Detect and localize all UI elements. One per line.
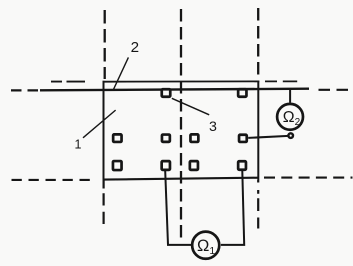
- bus right dashed segment: [319, 89, 350, 91]
- pad B4 (bottom row): [238, 161, 246, 170]
- svg-text:3: 3: [209, 119, 217, 135]
- pad M3 (middle row): [190, 134, 198, 142]
- pad B1 (bottom row): [113, 161, 122, 170]
- leader line for label 1: [83, 110, 116, 138]
- pad B2 (bottom row): [162, 161, 170, 170]
- grid line V1 lower dashed segment: [102, 180, 104, 224]
- wire from pad B4 to ohmmeter O1 right terminal: [221, 171, 244, 245]
- leader line for label 2: [113, 57, 128, 89]
- board right edge: [257, 81, 259, 180]
- svg-text:2: 2: [131, 39, 139, 56]
- pad T1 (top row, bus): [162, 89, 171, 97]
- grid line V3 lower dashed segment: [257, 180, 259, 229]
- wire from pad M4 to ohmmeter O2 bottom terminal: [248, 136, 288, 138]
- wire from bus to ohmmeter O2 top terminal: [289, 90, 291, 103]
- grid line H1 right dashed segment: [265, 80, 297, 82]
- ohmmeter O1 body: [192, 232, 219, 259]
- terminal dot at ohmmeter O2 bottom: [288, 133, 293, 138]
- leader line for label 3: [172, 98, 209, 115]
- svg-text:1: 1: [75, 138, 82, 152]
- grid line V2 center dashed: [180, 9, 182, 240]
- pad T2 (top row, bus): [238, 89, 246, 97]
- grid line V3 upper dashed segment: [257, 8, 259, 79]
- grid line H1 left dashed segment: [51, 81, 85, 83]
- pad M4 (middle row): [239, 135, 247, 142]
- board left edge: [103, 81, 105, 180]
- grid line V1 upper dashed segment: [104, 10, 106, 79]
- board bottom edge: [103, 178, 259, 180]
- bus left dashed segment: [11, 89, 40, 91]
- grid line H3 left dashed segment: [12, 179, 93, 181]
- pad B3 (bottom row): [190, 161, 198, 170]
- bus conductor (label 2): [40, 89, 309, 91]
- board top edge: [103, 80, 260, 82]
- ohmmeter O2 body: [277, 104, 303, 130]
- grid line H3 right dashed segment: [264, 177, 353, 179]
- pad M1 (middle row): [113, 134, 121, 142]
- wire from pad B2 to ohmmeter O1 left terminal: [165, 171, 191, 245]
- pad M2 (middle row): [162, 135, 170, 142]
